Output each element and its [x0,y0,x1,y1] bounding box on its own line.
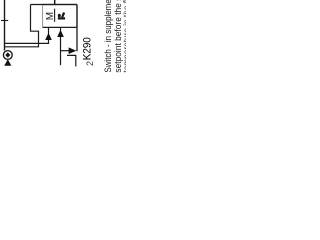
wire tick junction on left line [1,20,8,22]
wire: lower horizontal branch to bypass (line B) [5,5,39,47]
svg-text:K290: K290 [82,37,94,60]
arrowhead pointing right at vertical wire [69,47,77,54]
wire: vertical below arrow 2 [60,37,62,65]
wire: horizontal branch to arrow into box (line A) [5,40,49,43]
wire: top horizontal with stub to top edge [31,4,78,6]
svg-text:M: M [45,12,56,20]
wire: horizontal branch to right arrow [61,50,70,52]
arrowhead under circle [4,59,11,66]
wire stub at top [54,0,56,5]
mixing valve circle [3,51,12,60]
box divider bar [54,9,56,22]
wire stem from box to arrow 2 [60,28,62,31]
wire: right vertical from box corner down [76,5,78,52]
svg-text:2: 2 [85,61,95,66]
motor squiggle glyph in box [58,12,65,19]
svg-text:Switch - in supplementary: Switch - in supplementary [103,0,113,73]
wire stem from box to arrow 1 [48,28,50,34]
wire: main vertical supply line left [4,0,6,51]
wire: bracket corner lower right [67,55,76,66]
svg-text:temperature in the flow: temperature in the flow [122,0,126,73]
arrowhead into box (arrow 2) [57,30,64,37]
controller box U1 [43,5,77,28]
arrowhead into box (arrow 1) [45,33,52,40]
valve diamond inside circle [5,52,10,57]
